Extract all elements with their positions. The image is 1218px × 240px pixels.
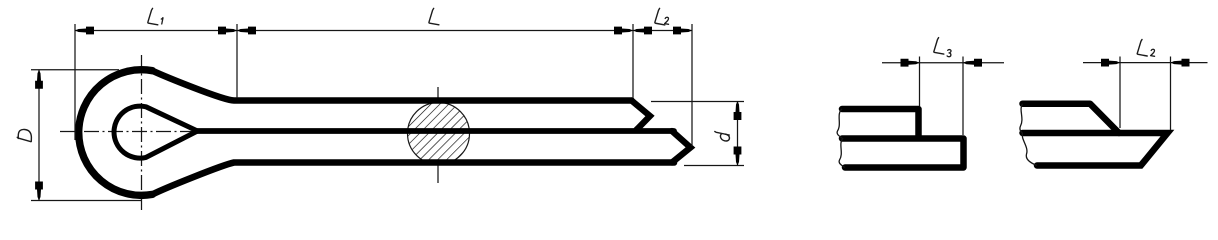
arrow d top bbox=[734, 101, 742, 120]
extension line at upper prong end bbox=[632, 24, 634, 98]
upper prong with chamfer bbox=[1023, 104, 1120, 133]
break line lower prong bbox=[839, 138, 845, 168]
separation line between the two prongs bbox=[198, 128, 675, 134]
center line: vertical through eye bbox=[141, 55, 143, 210]
pin bottom edge with neck transition bbox=[152, 163, 674, 195]
extension line at eye left edge bbox=[74, 24, 76, 140]
label L2 bbox=[655, 8, 669, 25]
extension line at start of straight section bbox=[236, 24, 238, 98]
upper prong chevron tip bbox=[632, 101, 651, 131]
arrow L left bbox=[237, 27, 256, 35]
arrow L2 left bbox=[633, 27, 652, 35]
extension line at pin top edge bbox=[651, 101, 744, 103]
arrow L2 detail left bbox=[1101, 59, 1120, 67]
extension line at lower prong end bbox=[962, 57, 964, 136]
dimension line L1-L-L2 (top) bbox=[75, 30, 692, 32]
main view: cotter pin side elevation bbox=[60, 55, 691, 210]
dimension line D (left) bbox=[38, 70, 40, 201]
break line upper prong bbox=[1020, 104, 1023, 133]
arrow D top bbox=[35, 70, 43, 89]
arrow d bottom bbox=[734, 147, 742, 166]
extension line at lower prong tip bbox=[691, 24, 693, 146]
label d bbox=[715, 132, 730, 141]
extension line at lower prong tip bbox=[1170, 57, 1172, 131]
label L1 bbox=[148, 8, 163, 25]
break line lower prong bbox=[1022, 133, 1037, 166]
pin top edge with neck transition bbox=[152, 71, 631, 101]
dimension line L2 (detail) bbox=[1083, 62, 1208, 64]
arrow L1 right bbox=[218, 27, 237, 35]
extension line at upper prong chamfer bbox=[1119, 57, 1121, 129]
arrow L1 left bbox=[75, 27, 94, 35]
extension line at eye bottom bbox=[31, 200, 141, 202]
arrow L2 detail right bbox=[1171, 59, 1190, 67]
hatched section circle bbox=[408, 103, 470, 165]
extension line at eye top bbox=[31, 69, 119, 71]
upper prong rectangle bbox=[842, 109, 919, 138]
eye inner teardrop opening bbox=[114, 106, 197, 158]
arrow D bottom bbox=[35, 182, 43, 201]
center line: horizontal pin axis bbox=[60, 131, 196, 133]
break line upper prong bbox=[837, 109, 842, 138]
detail view 1: square-cut prong ends bbox=[837, 109, 963, 168]
eye outer ring bbox=[79, 70, 153, 196]
lower prong rectangle bbox=[842, 139, 964, 168]
label D bbox=[17, 129, 31, 141]
lower prong pointed tip bbox=[672, 131, 691, 163]
label L bbox=[429, 8, 439, 25]
arrow L2 right bbox=[673, 27, 692, 35]
detail view 2: bevel-cut prong ends bbox=[1020, 104, 1168, 166]
label L3 bbox=[934, 38, 951, 57]
arrow L3 left bbox=[901, 59, 920, 67]
dimension line L3 bbox=[882, 62, 1004, 64]
arrow L right bbox=[614, 27, 633, 35]
extension line at upper prong end bbox=[919, 57, 921, 107]
extension line at pin bottom edge bbox=[684, 165, 744, 167]
arrow L3 right bbox=[963, 59, 982, 67]
section trace line through hatched circle bbox=[437, 87, 439, 183]
label L2 detail bbox=[1137, 40, 1154, 57]
lower prong with pointed bevel tip bbox=[1023, 133, 1168, 166]
dimension line d (right) bbox=[737, 101, 739, 166]
